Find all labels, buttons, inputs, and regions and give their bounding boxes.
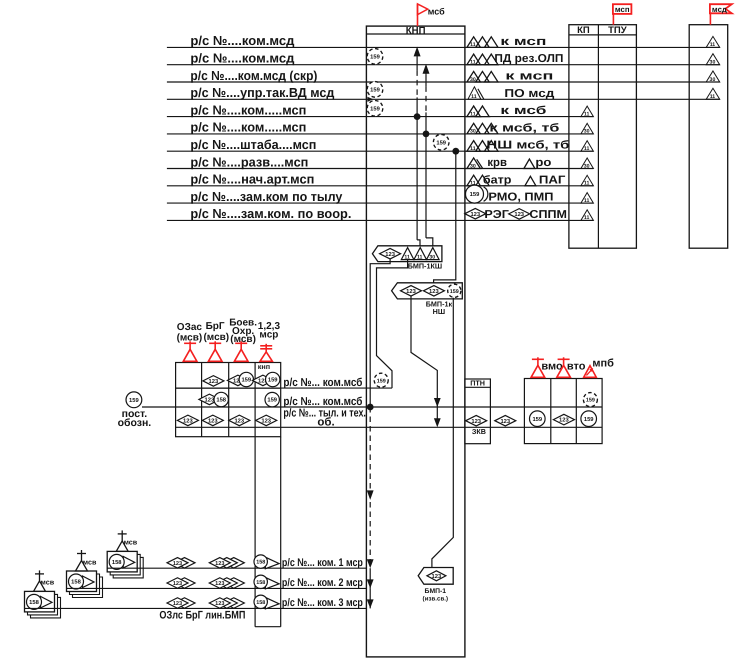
antenna row5 double-11 [467, 106, 489, 117]
svg-text:159: 159 [370, 54, 380, 61]
node grid r1c3 circle 159 [239, 372, 253, 386]
node grid r3c2 diamond [202, 415, 223, 426]
label vmo [541, 361, 563, 373]
node BMP-1 hexagon [418, 568, 453, 585]
svg-text:123: 123 [500, 418, 510, 425]
wire net row 9 [167, 185, 594, 187]
label ob [317, 417, 334, 429]
svg-text:158: 158 [256, 560, 265, 566]
wire line A upper [416, 56, 418, 70]
svg-text:НШ мсб, тб: НШ мсб, тб [486, 140, 569, 152]
svg-text:159: 159 [436, 139, 446, 146]
wire drop l2-l3 [369, 588, 371, 608]
label izv.sv [423, 595, 449, 602]
svg-text:ЗКВ: ЗКВ [472, 427, 486, 436]
wire net row 10 [167, 202, 594, 204]
svg-text:обозн.: обозн. [118, 417, 152, 429]
wire line C [434, 151, 456, 285]
node grid r3c1 diamond [177, 415, 198, 426]
junction dot C row7 [452, 148, 459, 155]
node line2 circle 158 pointer [254, 575, 279, 589]
arrow drop line2 [367, 579, 374, 588]
label msp [615, 5, 630, 14]
label net row 11 [190, 206, 351, 221]
node vmo-vto-mpb box [524, 379, 602, 444]
node NSh dashed circle 159 [448, 284, 461, 297]
arrow NSh bus3 [434, 418, 441, 427]
svg-text:ПТН: ПТН [470, 378, 485, 387]
svg-text:159: 159 [450, 289, 459, 295]
label right row9 batr [483, 174, 512, 186]
svg-text:11: 11 [584, 111, 590, 117]
label msv 3 [41, 578, 55, 587]
svg-text:р/с №... ком.мсб: р/с №... ком.мсб [283, 377, 362, 389]
label net row 4 [190, 85, 335, 100]
wire line A dashed [416, 70, 418, 97]
svg-text:об.: об. [317, 417, 334, 429]
flag msb pole [417, 4, 419, 26]
node dashed circle 159 rows1-2 [367, 49, 383, 65]
svg-text:11: 11 [470, 146, 476, 152]
svg-text:158: 158 [216, 397, 226, 404]
node dashed circle line1 end [374, 373, 388, 387]
wire net row 8 [167, 168, 594, 170]
arrow right on row4 [367, 97, 373, 102]
svg-text:159: 159 [586, 398, 595, 404]
svg-text:мсв: мсв [124, 538, 138, 547]
antenna BMP-1KSh tri 11b [414, 248, 427, 261]
node grid r2c2 circle 158 [214, 392, 228, 406]
svg-text:123: 123 [215, 561, 224, 567]
label right row 1 [500, 36, 546, 48]
svg-text:р/с №....нач.арт.мсп: р/с №....нач.арт.мсп [190, 172, 314, 187]
svg-text:158: 158 [29, 599, 39, 606]
label TPU [608, 25, 627, 36]
label company line 1 [282, 557, 363, 569]
svg-text:мсп: мсп [615, 5, 630, 14]
label right row 4 [504, 88, 555, 100]
wire col4 extension [255, 437, 281, 627]
arrow mid drop [367, 490, 374, 500]
node row11 diamond 123 a [465, 208, 486, 219]
svg-text:123: 123 [173, 581, 182, 587]
antenna msd row2 single-30 [706, 54, 720, 66]
svg-text:ро: ро [535, 157, 551, 169]
junction dot B row6 [423, 131, 430, 138]
wire line A jog to tri2 [417, 240, 420, 248]
label BoevOhr msv [230, 334, 256, 345]
node dashed circle 159 rows6-7 [433, 134, 449, 150]
wire line B dashed [425, 86, 427, 112]
svg-text:159: 159 [370, 87, 380, 94]
antenna row4 single-11 [468, 87, 484, 100]
svg-text:123: 123 [215, 601, 224, 607]
svg-text:159: 159 [267, 397, 277, 404]
node grid r3c4 diamond [256, 415, 277, 426]
node radio 3 msv [25, 570, 61, 618]
node line3 diamond triple [209, 598, 244, 609]
wire NSh circle to BMP-1 [432, 298, 453, 568]
antenna KP row11 single-11 [581, 210, 594, 221]
svg-text:р/с №... ком.мсб: р/с №... ком.мсб [283, 396, 362, 408]
svg-text:к мсб, тб: к мсб, тб [489, 122, 559, 134]
svg-text:11: 11 [584, 181, 590, 187]
node company grid box [176, 363, 281, 437]
svg-text:НШ: НШ [433, 307, 445, 316]
svg-text:11: 11 [584, 146, 590, 152]
svg-text:р/с №....ком.мсд: р/с №....ком.мсд [190, 33, 295, 48]
svg-text:крв: крв [487, 157, 507, 169]
label msv 2 [83, 557, 97, 566]
wire net row 6 [167, 133, 594, 135]
label right row9 PAG [539, 174, 566, 186]
label company line 3 [282, 597, 363, 609]
wire net row 3 [167, 81, 720, 83]
svg-text:БрГ: БрГ [206, 321, 225, 332]
label right row8 ro [535, 157, 551, 169]
svg-text:ТПУ: ТПУ [608, 25, 627, 36]
label msb [428, 6, 445, 16]
svg-text:мпб: мпб [592, 357, 614, 369]
wire dashed drop [369, 407, 371, 561]
arrow drop line1 [367, 559, 374, 568]
label OZas msv [177, 333, 203, 344]
antenna BMP-1KSh tri 11a [401, 248, 414, 261]
node grid r2c4 circle 159 [265, 392, 279, 406]
svg-text:159: 159 [470, 191, 480, 198]
label msd [712, 5, 727, 14]
svg-text:(мсв): (мсв) [177, 333, 203, 344]
svg-text:(мсв): (мсв) [230, 334, 256, 345]
label BrG [206, 321, 225, 332]
svg-text:123: 123 [261, 418, 271, 425]
antenna msd row3 single-30 [706, 71, 720, 83]
label net row 6 [190, 120, 306, 135]
node grid r1c2 diamond [203, 376, 224, 387]
antenna row7 triple-11 [467, 141, 498, 152]
svg-text:р/с №....ком.....мсп: р/с №....ком.....мсп [190, 120, 306, 135]
svg-text:батр: батр [483, 174, 512, 186]
label rs tyl [283, 407, 366, 419]
antenna vmo [531, 357, 545, 377]
wire company line 3 [25, 607, 367, 609]
node row11 diamond 123 b [509, 209, 530, 220]
svg-text:КП: КП [577, 25, 590, 36]
svg-text:р/с №....ком.мсд (скр): р/с №....ком.мсд (скр) [190, 68, 317, 83]
svg-text:11: 11 [584, 215, 590, 221]
node BMP-1 diamond [427, 571, 446, 581]
junction dot bus2 [367, 404, 374, 411]
svg-text:159: 159 [241, 377, 251, 384]
wire line B lower [425, 112, 427, 237]
svg-text:159: 159 [129, 397, 139, 404]
node grid r1c4 diamond [252, 375, 273, 386]
antenna KP row5 single-11 [581, 106, 594, 117]
flag msb pennant [418, 4, 428, 15]
svg-text:158: 158 [71, 579, 81, 586]
svg-text:123: 123 [209, 378, 219, 385]
node vmo circle 159 [530, 411, 546, 427]
svg-text:123: 123 [470, 211, 480, 218]
node NSh diamond 123 b [423, 286, 444, 297]
node dashed circle 159 row5 [367, 101, 383, 117]
svg-text:мсв: мсв [83, 557, 97, 566]
svg-text:мсв: мсв [41, 578, 55, 587]
node radio 1 msv [107, 530, 143, 578]
svg-text:РМО, ПМП: РМО, ПМП [488, 192, 553, 204]
svg-text:11: 11 [470, 42, 476, 48]
label BMP-1k [426, 299, 453, 308]
node KNP command post box [366, 26, 465, 657]
node grid r1c4 circle 159 [265, 372, 279, 386]
label Ohr [232, 326, 254, 337]
antenna row9 plain triangle [525, 176, 536, 186]
antenna BMP-1KSh tri 30 [427, 248, 440, 261]
wire net row 1 [167, 46, 720, 48]
label right row 5 [500, 105, 546, 117]
svg-text:ОЗлс БрГ лин.БМП: ОЗлс БрГ лин.БМП [159, 609, 245, 621]
node row10 circle 159 [466, 185, 488, 203]
svg-text:11: 11 [471, 94, 477, 100]
svg-text:30: 30 [470, 163, 476, 169]
label right row 7 [486, 140, 569, 152]
wire NSh to buses [411, 296, 437, 425]
antenna mpb [584, 366, 597, 378]
wire KSh diamond to bus2 [370, 259, 390, 407]
wire line B up-arrow [423, 64, 430, 75]
wire bus line2 [142, 406, 602, 408]
flag msd swallowtail [710, 4, 732, 13]
svg-text:123: 123 [173, 561, 182, 567]
label right row8 krv [487, 157, 507, 169]
svg-text:11: 11 [710, 94, 716, 100]
arrow NSh bus2 [434, 398, 441, 407]
svg-text:к мсп: к мсп [505, 71, 553, 83]
svg-text:123: 123 [215, 581, 224, 587]
svg-text:КНП: КНП [406, 25, 426, 36]
svg-text:р/с №....зам.ком. по воор.: р/с №....зам.ком. по воор. [190, 206, 351, 221]
svg-text:123: 123 [471, 418, 481, 425]
svg-text:123: 123 [514, 211, 524, 218]
label msv 1 [124, 538, 138, 547]
antenna row2 triple-11 [467, 54, 498, 65]
antenna msd row4 single-11 [706, 88, 720, 100]
svg-text:123: 123 [432, 573, 442, 580]
wire company line 2 [67, 587, 367, 589]
svg-text:11: 11 [710, 42, 716, 48]
label vto [567, 361, 586, 373]
svg-text:30: 30 [429, 254, 435, 260]
svg-text:мсд: мсд [712, 5, 727, 14]
svg-text:30: 30 [470, 77, 476, 83]
svg-text:30: 30 [470, 129, 476, 135]
antenna row3 triple-30 [467, 71, 498, 82]
node line2 diamond pair [167, 578, 195, 589]
svg-text:159: 159 [532, 416, 542, 423]
label BrG msv [203, 332, 229, 343]
svg-text:к мсб: к мсб [500, 105, 546, 117]
svg-text:к мсп: к мсп [500, 36, 546, 48]
antenna msd row1 single-11 [706, 36, 720, 48]
wire bus line1 [176, 387, 392, 389]
label right row11 REG [484, 209, 509, 221]
node PTN diamond [466, 415, 487, 426]
wire net row 5 [167, 116, 594, 118]
node BMP-1k-NSh hexagon [392, 283, 463, 299]
svg-text:р/с №....упр.так.ВД мсд: р/с №....упр.так.ВД мсд [190, 85, 335, 100]
svg-text:123: 123 [234, 418, 244, 425]
label net row 5 [190, 102, 306, 117]
node line3 diamond pair [167, 598, 195, 609]
svg-text:158: 158 [256, 600, 265, 606]
svg-text:123: 123 [559, 417, 569, 424]
label right row 3 [505, 71, 553, 83]
label obozn [118, 417, 152, 429]
antenna vto [557, 357, 571, 377]
label rs kom.msb 2 [283, 396, 362, 408]
svg-text:БМП-1КШ: БМП-1КШ [408, 262, 442, 271]
node mpb dashed circle 159 [583, 393, 597, 407]
label BMP-1 [425, 588, 447, 595]
svg-text:ПАГ: ПАГ [539, 174, 566, 186]
svg-text:123: 123 [208, 418, 218, 425]
svg-text:кнп: кнп [258, 362, 270, 371]
label net row 3 [190, 68, 317, 83]
svg-text:мсб: мсб [428, 6, 445, 16]
node radio 2 msv [67, 550, 103, 598]
node dashed circle 159 row4 [367, 82, 383, 98]
wire line A up-arrow [414, 47, 421, 57]
label 123 [258, 321, 281, 332]
label company line 2 [282, 577, 363, 589]
node grid r2c2 diamond [199, 394, 220, 405]
antenna row6 triple-30 [467, 123, 498, 134]
antenna row9 double-11 [467, 175, 489, 186]
svg-text:11: 11 [417, 254, 423, 260]
label PTN [470, 378, 485, 387]
label Boev [229, 318, 257, 329]
svg-text:11: 11 [470, 111, 476, 117]
svg-text:30: 30 [584, 163, 590, 169]
svg-text:11: 11 [584, 198, 590, 204]
flag msd pole [709, 13, 711, 24]
wire net row 4 [167, 98, 720, 100]
label right row 2 [494, 53, 563, 65]
junction dot A row5 [414, 113, 421, 120]
svg-text:р/с №... ком. 3 мср: р/с №... ком. 3 мср [282, 597, 363, 609]
label OZas [177, 322, 203, 333]
svg-text:159: 159 [370, 105, 380, 112]
node mpb circle 159 [581, 411, 597, 427]
svg-text:123: 123 [385, 251, 395, 258]
svg-text:159: 159 [268, 377, 278, 384]
svg-text:р/с №....зам.ком по тылу: р/с №....зам.ком по тылу [190, 189, 343, 204]
antenna row1 triple-11 [467, 37, 498, 48]
wire net row 2 [167, 64, 720, 66]
svg-text:(мсв): (мсв) [203, 332, 229, 343]
svg-text:р/с №....ком.....мсп: р/с №....ком.....мсп [190, 102, 306, 117]
node post circle 159 [126, 392, 142, 408]
antenna KP row6 single-30 [581, 123, 594, 134]
node PTN box [465, 379, 491, 444]
label KNP header [406, 25, 426, 36]
svg-text:30: 30 [710, 77, 716, 83]
node line2 diamond triple [209, 578, 244, 589]
svg-text:11: 11 [470, 60, 476, 66]
antenna msr 123 [260, 344, 272, 362]
svg-text:30: 30 [710, 60, 716, 66]
svg-text:ПО мсд: ПО мсд [504, 88, 555, 100]
label net row 7 [190, 137, 316, 152]
flag msp pole [612, 14, 614, 25]
wire line B jog to tri3 [426, 238, 433, 248]
svg-text:159: 159 [584, 416, 594, 423]
wire drop l1-l2 [369, 568, 371, 588]
svg-text:БМП-1: БМП-1 [425, 588, 447, 595]
svg-text:30: 30 [584, 129, 590, 135]
label post [122, 408, 148, 420]
node line1 circle 158 pointer [254, 555, 279, 569]
node line3 circle 158 pointer [254, 595, 279, 609]
svg-text:123: 123 [183, 418, 193, 425]
antenna OZas [183, 341, 197, 361]
svg-text:158: 158 [256, 580, 265, 586]
node msd box [689, 25, 728, 249]
label KP [577, 25, 590, 36]
label knp small [258, 362, 270, 371]
wire net row 7 [167, 150, 594, 152]
wire company line 1 [107, 567, 366, 569]
svg-text:р/с №....разв....мсп: р/с №....разв....мсп [190, 154, 308, 169]
node NSh diamond 123 a [401, 286, 422, 297]
antenna BrG [208, 341, 222, 361]
wire KSh tri to line1-end [377, 260, 408, 389]
node BMP-1KSh hexagon [372, 246, 442, 262]
label mpb [592, 357, 614, 369]
label NSh [433, 307, 445, 316]
label net row 8 [190, 154, 308, 169]
label right row11 SPPM [529, 209, 567, 221]
svg-text:р/с №... ком. 2 мср: р/с №... ком. 2 мср [282, 577, 363, 589]
svg-text:158: 158 [112, 559, 122, 566]
antenna KP row7 single-11 [581, 141, 594, 152]
svg-text:мср: мср [259, 329, 278, 340]
svg-text:вто: вто [567, 361, 586, 373]
label right row10 [488, 192, 553, 204]
antenna row8 plain triangle [524, 159, 535, 169]
label msr [259, 329, 278, 340]
svg-text:р/с №....ком.мсд: р/с №....ком.мсд [190, 51, 295, 66]
node BMP-1KSh diamond 123 [380, 248, 401, 258]
wire net row 11 [167, 219, 594, 221]
node vto diamond 123 [553, 414, 574, 425]
label right row 6 [489, 122, 559, 134]
antenna KP row9 single-11 [581, 175, 594, 186]
svg-text:СППМ: СППМ [529, 209, 567, 221]
svg-text:123: 123 [173, 601, 182, 607]
svg-text:159: 159 [377, 378, 386, 384]
antenna KP row10 single-11 [581, 193, 594, 204]
label net row 10 [190, 189, 343, 204]
label net row 2 [190, 51, 295, 66]
node grid r1c3 diamond [227, 375, 248, 386]
label rs kom.msb 1 [283, 377, 362, 389]
svg-text:р/с №... ком. 1 мср: р/с №... ком. 1 мср [282, 557, 363, 569]
label ZKV [472, 427, 486, 436]
wire bus line3 [176, 426, 603, 428]
antenna row8 single-30 [467, 158, 483, 169]
label net row 9 [190, 172, 314, 187]
